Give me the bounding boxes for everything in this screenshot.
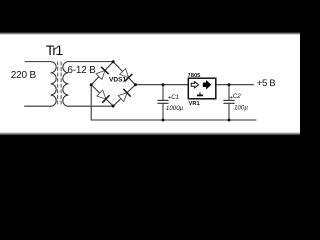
svg-text:100µ: 100µ <box>234 105 248 112</box>
capacitor C1 plates <box>157 100 168 103</box>
svg-text:+5 В: +5 В <box>257 78 275 89</box>
wire bridge side bottom-left <box>91 85 113 106</box>
transformer Tr1 secondary winding <box>63 62 69 107</box>
svg-text:Tr1: Tr1 <box>46 43 64 59</box>
svg-text:C1: C1 <box>171 94 179 101</box>
regulator output solid arrow <box>203 81 211 89</box>
white letterbox band <box>0 32 300 136</box>
transformer Tr1 primary winding <box>51 62 57 107</box>
wire secondary top lead to bridge top <box>68 61 113 63</box>
diode VD3 bottom-left <box>97 90 110 103</box>
junction node C2 bottom <box>228 119 231 122</box>
wire primary top lead <box>25 61 51 63</box>
capacitor C2 bottom lead <box>228 104 230 120</box>
svg-text:VR1: VR1 <box>189 101 201 107</box>
wire secondary bottom lead to bridge bottom <box>68 105 113 107</box>
wire DC plus rail <box>135 84 253 86</box>
junction node bridge top <box>112 60 115 63</box>
capacitor C1 bottom lead <box>162 104 164 120</box>
transformer core line 2 <box>60 62 62 106</box>
svg-text:7805: 7805 <box>188 73 202 79</box>
capacitor C2 plates <box>223 100 234 103</box>
svg-text:1000µ: 1000µ <box>166 105 184 112</box>
capacitor C2 top lead <box>228 85 230 100</box>
junction node bridge bottom <box>112 105 115 108</box>
regulator common pin symbol <box>197 92 203 95</box>
junction node bridge left <box>90 83 93 86</box>
wire DC minus: left corner down then bottom rail <box>91 85 256 120</box>
junction node C1 bottom <box>162 119 165 122</box>
svg-text:C2: C2 <box>233 93 241 100</box>
wire primary bottom lead <box>25 105 51 107</box>
capacitor C1 top lead <box>162 85 164 100</box>
wire bridge side top-left <box>91 62 113 85</box>
diode VD2 top-right <box>120 69 133 82</box>
wire bridge side top-right <box>113 62 135 85</box>
diode VD4 bottom-right <box>118 89 131 102</box>
regulator input hollow arrow <box>191 82 198 89</box>
svg-text:VDS1: VDS1 <box>109 77 127 84</box>
junction node C2 top <box>228 83 231 86</box>
regulator U1 7805 box <box>188 78 216 99</box>
junction node bridge right <box>134 83 137 86</box>
transformer core line 1 <box>57 62 59 106</box>
junction node C1 top <box>162 83 165 86</box>
svg-text:220 В: 220 В <box>11 70 37 81</box>
svg-text:6-12 В: 6-12 В <box>67 65 96 76</box>
diode VD1 top-left (triangle + cathode bar) <box>96 67 109 80</box>
wire bridge side bottom-right <box>113 85 135 106</box>
